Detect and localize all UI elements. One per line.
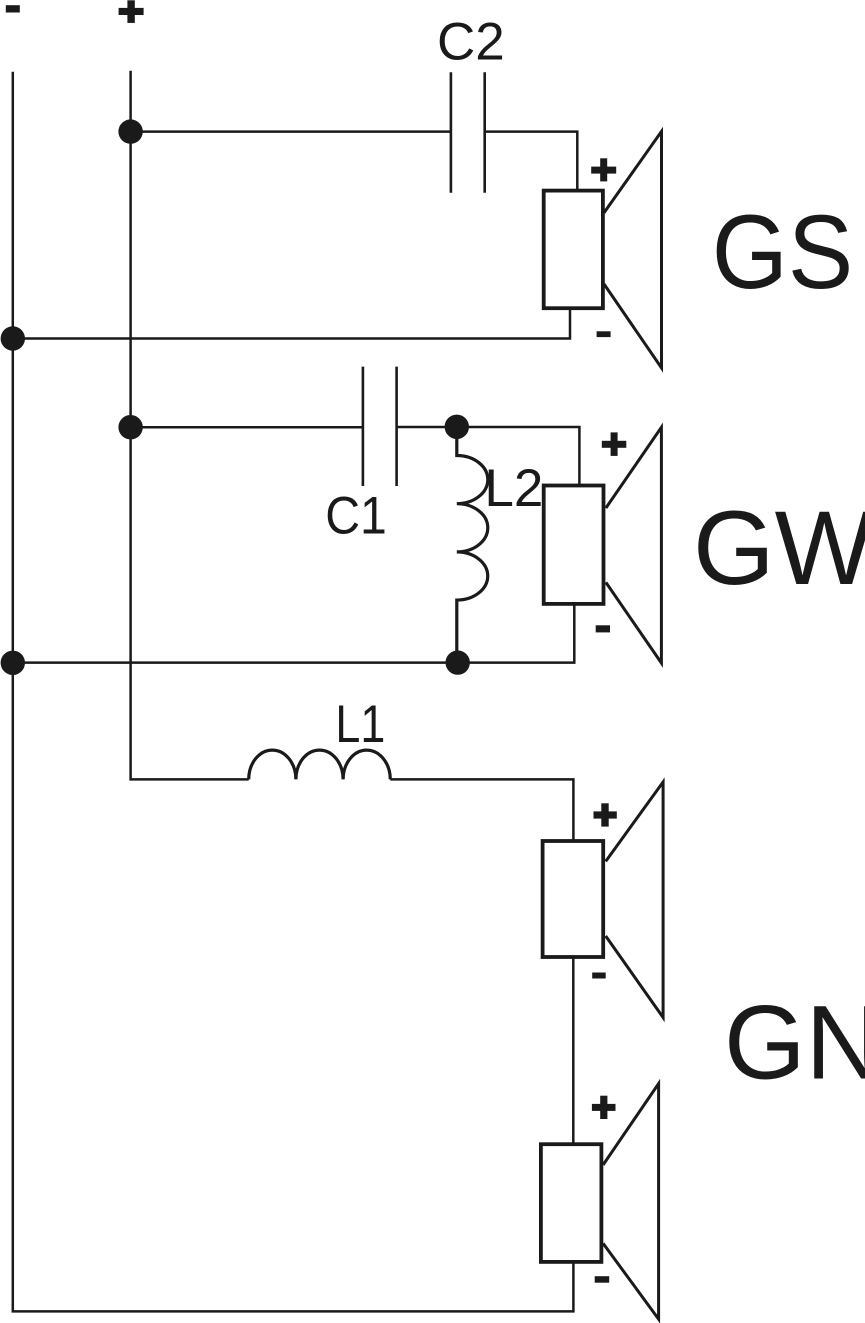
inductor L1 <box>249 750 391 779</box>
node C junction dot C1/L2 top <box>445 415 469 439</box>
speaker GS minus mark <box>597 331 611 337</box>
wire GS minus to negative rail <box>13 308 570 338</box>
wire C2 to GS plus <box>485 132 578 191</box>
speaker GS plus mark <box>591 158 616 181</box>
svg-text:GS: GS <box>712 194 854 311</box>
speaker GW driver <box>544 427 662 663</box>
wire node B to C1 <box>131 426 363 429</box>
speaker GN1 driver <box>543 782 664 1018</box>
minus terminal label <box>6 5 20 12</box>
speaker GW minus mark <box>596 625 610 632</box>
plus terminal label <box>119 0 144 23</box>
junction dot negative rail lower <box>1 651 25 675</box>
svg-text:C1: C1 <box>325 487 387 546</box>
capacitor C1 <box>363 367 397 486</box>
svg-text:L1: L1 <box>335 695 385 754</box>
wire C1 to node C to GW plus <box>397 427 580 486</box>
svg-text:L2: L2 <box>484 459 543 518</box>
junction dot negative rail upper <box>1 326 25 350</box>
node D junction dot L2 bottom <box>446 650 470 674</box>
speaker GN2 plus mark <box>592 1096 616 1119</box>
speaker GN2 minus mark <box>595 1276 610 1283</box>
speaker GN1 plus mark <box>594 803 617 826</box>
inductor L2 <box>457 427 488 663</box>
wire positive rail down to L1 <box>131 71 249 780</box>
speaker GN1 minus mark <box>592 973 606 979</box>
svg-text:C2: C2 <box>437 12 505 71</box>
wire negative rail and bottom return <box>13 72 574 1312</box>
speaker GS driver <box>544 131 662 368</box>
wire node A to C2 <box>131 130 451 133</box>
wire GW minus through node D to negative rail <box>13 604 575 663</box>
svg-text:GN: GN <box>724 985 865 1102</box>
wire L1 to GN1 plus <box>390 779 573 841</box>
capacitor C2 <box>451 72 485 192</box>
node B junction dot on positive rail <box>118 415 142 439</box>
svg-text:GW: GW <box>693 490 865 607</box>
node A junction dot on positive rail <box>118 119 142 143</box>
speaker GW plus mark <box>602 432 627 456</box>
speaker GN2 driver <box>541 1084 659 1320</box>
wire GN1 minus to GN2 plus <box>572 957 575 1144</box>
